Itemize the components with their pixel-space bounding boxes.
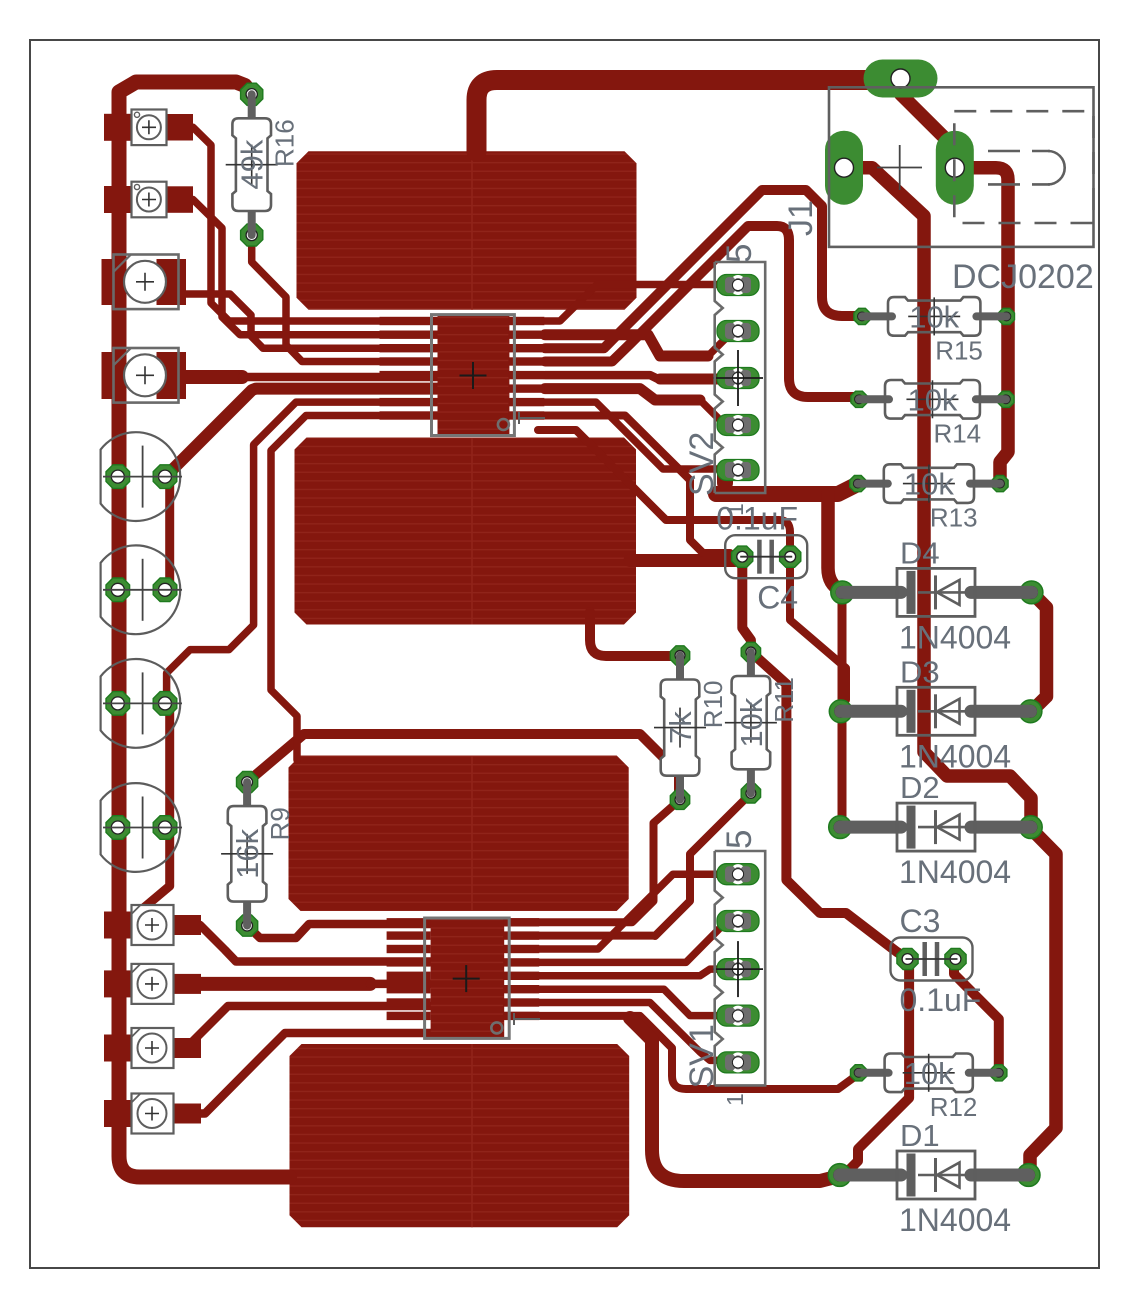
SMD pad LED1 outline <box>132 110 167 146</box>
diode D4 pads <box>831 581 1043 604</box>
IC2 pin8 silk tick <box>514 1013 540 1025</box>
connector SV2 pads 1-5 <box>713 275 763 481</box>
wire IC1 pin8-left to polygon-C (long vertical) <box>271 416 437 761</box>
diode D4 body <box>897 568 975 616</box>
electrolytic capacitor pad C3 outline <box>101 659 182 748</box>
wire IC2 pin3-right to SV1 pad1 <box>511 874 720 949</box>
svg-text:R14: R14 <box>933 418 981 448</box>
electrolytic capacitor C3 pads <box>106 692 177 716</box>
wire SMD pad LED5 to IC2 pin4-left <box>174 925 431 962</box>
connector SV1 pads 1-5 <box>713 864 763 1073</box>
op-amp IC1 (SOIC-16) outline <box>432 315 515 436</box>
diode D3 pads <box>829 700 1042 723</box>
svg-text:10k: 10k <box>909 299 959 334</box>
svg-text:1N4004: 1N4004 <box>899 619 1011 655</box>
capacitor C3 silk <box>891 938 973 981</box>
wire jack pad2 down through R15 R14 R13 D4 D3 to D2 right and D1 right (power trace B) <box>844 168 1056 1175</box>
resistor R9 pads <box>237 772 258 937</box>
wire IC1 pin7-left to electrolytic C3 right pad (long vertical) <box>167 402 437 704</box>
resistor R16 pads <box>241 83 263 246</box>
diode D1 pads <box>828 1164 1040 1187</box>
electrolytic capacitor pad C4 outline <box>101 783 182 872</box>
wire R13 trace branch down to D4 left pad <box>828 494 841 591</box>
svg-text:R10: R10 <box>698 681 728 729</box>
resistor R11 silk value=10k <box>725 652 799 793</box>
wire electrolytic C1 right to C2 right pad <box>165 477 174 590</box>
op-amp IC2 (SOIC-16) copper <box>387 918 540 1037</box>
electrolytic capacitor C2 pads <box>106 578 177 602</box>
resistor R13 body <box>884 464 974 503</box>
wire C3 left pad down through R12 to D1 left pad <box>845 959 909 1174</box>
resistor R16 body <box>232 118 271 211</box>
wire IC1 pin2 to SV2 pad2 <box>545 332 738 356</box>
capacitor C3 body <box>891 938 973 981</box>
SMD pad LED7 outline <box>132 1028 174 1068</box>
copper pour polygon GND upper-middle <box>295 438 637 625</box>
wire IC1 pin3 to R15 left pad (via top hook) <box>545 190 862 348</box>
wire SMD pad LED4 to IC1 pin5-left <box>186 370 437 384</box>
svg-text:1N4004: 1N4004 <box>899 738 1011 774</box>
resistor R14 silk value=10k <box>859 380 1006 448</box>
copper pour polygon GND top <box>297 151 637 309</box>
svg-text:D3: D3 <box>900 654 940 689</box>
diode D4 labels <box>899 535 1011 655</box>
electrolytic capacitor pad C1 outline <box>101 432 182 521</box>
resistor R15 body <box>888 297 980 336</box>
diode D2 body <box>897 803 975 851</box>
resistor R15 silk value=10k <box>862 297 1006 365</box>
wire IC2 pin6-right to SV1 pad4 <box>511 989 738 1015</box>
capacitor C4 pads <box>732 546 801 567</box>
diode D3 silk (1N4004) <box>841 687 1031 735</box>
wire R9 bottom pad to IC2 pin1-left <box>247 924 431 938</box>
copper pour polygon GND lower-middle <box>289 756 629 912</box>
wire D4 right pad to D3 right pad <box>1032 592 1047 711</box>
wire SV2 pin5 to R13 left pad <box>716 469 858 494</box>
wire IC1 pin4 to R14 left pad (via hook around SV2) <box>545 226 859 397</box>
wire C4 left pad down to R11 top pad <box>742 557 751 652</box>
svg-text:1N4004: 1N4004 <box>899 854 1011 890</box>
wire jack pad3 to R15/R14/R13 right pads (vertical x1008) <box>955 168 1008 484</box>
svg-text:D4: D4 <box>900 535 940 570</box>
diode D2 silk (1N4004) <box>840 803 1031 851</box>
DC jack J1 outline (DCJ0202) <box>829 87 1094 247</box>
diode D4 silk (1N4004) <box>842 568 1031 616</box>
svg-text:10k: 10k <box>904 1056 954 1091</box>
wire jack pad1 to jack pad3 (diagonal) <box>901 80 955 168</box>
svg-text:0.1uF: 0.1uF <box>900 982 982 1018</box>
wire R11 top pad to C3 left pad (down right side of SV1) <box>751 652 909 959</box>
DC jack J1 labels <box>782 200 1094 296</box>
op-amp IC1 (SOIC-16) copper <box>380 316 545 435</box>
diode D2 pads <box>829 816 1043 839</box>
resistor R15 pads <box>854 308 1015 324</box>
SMD pad LED8 outline <box>132 1094 174 1134</box>
resistor R12 body <box>885 1054 973 1093</box>
svg-text:SV1: SV1 <box>683 1024 721 1088</box>
svg-text:10k: 10k <box>907 382 957 417</box>
wire IC2 pin8-right to R12 left pad <box>511 1016 859 1089</box>
connector SV2 outline and labels <box>683 244 765 516</box>
wire polygon-B to C4 right pad and down to D3 left pad <box>538 430 846 700</box>
svg-text:1: 1 <box>722 1093 748 1106</box>
wire IC2 pin7-right to SV1 pad5 <box>511 1003 738 1061</box>
IC1 pin8 silk tick <box>519 412 545 424</box>
capacitor C4 silk <box>725 535 807 578</box>
SMD LED pad copper stubs (top group) <box>102 114 194 399</box>
resistor R10 body <box>661 680 700 776</box>
SMD pad LED3 outline <box>114 255 179 310</box>
op-amp IC2 (SOIC-16) outline <box>425 918 510 1038</box>
svg-text:5: 5 <box>720 830 759 849</box>
wire polygon-B to R10 top pad <box>590 612 680 656</box>
copper pour polygon GND bottom <box>290 1044 630 1227</box>
capacitor C4 labels <box>716 501 798 616</box>
resistor R14 pads <box>851 391 1014 407</box>
wire R16 bottom pad to IC1 pin4-left <box>252 237 437 362</box>
SMD pad LED5 outline <box>132 905 174 945</box>
wire polygon-A stub to jack sleeve pad (top power trace) <box>477 80 898 152</box>
svg-text:R9: R9 <box>265 807 295 840</box>
diode D1 silk (1N4004) <box>840 1151 1029 1199</box>
svg-text:DCJ0202: DCJ0202 <box>952 258 1094 296</box>
wire D4 left pad to D3 left pad to D2 left pad <box>838 593 847 827</box>
wire SMD pad LED8 to IC2 pin8-left <box>174 1033 431 1114</box>
svg-text:C4: C4 <box>757 580 798 616</box>
SMD pad LED2 outline <box>132 182 167 218</box>
wire SMD pad LED2 to IC1 pin2 <box>193 200 437 335</box>
wire IC1 pin8 to C4 left pad (diagonal below SV2) <box>545 416 730 554</box>
wire SMD pad LED7 to IC2 pin7-left <box>174 1006 431 1048</box>
wire IC1 pin6 to SV2 pad4 <box>545 389 738 424</box>
resistor R9 silk value=16k <box>221 782 295 926</box>
resistor R14 body <box>885 380 980 419</box>
resistor R11 body <box>732 676 771 769</box>
wire IC2 pin2-right to R11 bottom pad <box>511 793 751 936</box>
resistor R12 silk value=10k <box>859 1054 999 1122</box>
wire polygon-D area to D1 left pad <box>630 1018 840 1181</box>
svg-text:R11: R11 <box>769 677 799 723</box>
SMD pad LED4 outline <box>114 348 179 403</box>
capacitor C4 body <box>725 535 807 578</box>
wire IC2 pin4-right to SV1 pad2 <box>511 921 738 962</box>
svg-text:1N4004: 1N4004 <box>899 1202 1011 1238</box>
svg-text:5: 5 <box>720 244 759 263</box>
svg-text:16k: 16k <box>230 828 265 878</box>
capacitor C3 pads <box>897 948 966 969</box>
electrolytic capacitor C4 pads <box>106 816 177 840</box>
wire C3 right pad to R12 right pad <box>954 959 999 1073</box>
connector SV1 outline and labels <box>683 830 765 1106</box>
resistor R13 pads <box>850 476 1008 492</box>
resistor R12 pads <box>851 1065 1007 1081</box>
wire polygon-B to C4 left pad <box>630 554 735 567</box>
resistor R10 pads <box>670 646 689 810</box>
wire electrolytic C3 right to C4 right pad <box>165 703 174 827</box>
diode D1 labels <box>899 1118 1011 1238</box>
svg-text:D2: D2 <box>900 770 940 805</box>
svg-text:R16: R16 <box>270 119 300 167</box>
wire R9 top pad to R10 bottom pad (long horizontal) <box>247 734 679 800</box>
wire SMD pad LED3 to IC1 pin3-left <box>186 294 437 348</box>
svg-text:R13: R13 <box>930 503 978 533</box>
svg-text:10k: 10k <box>904 467 954 502</box>
svg-text:J1: J1 <box>782 200 820 236</box>
wire IC1 pin1 to SV2 pad1 <box>545 285 717 322</box>
svg-text:7k: 7k <box>663 711 698 744</box>
svg-text:R15: R15 <box>935 335 983 365</box>
SMD LED pad copper stubs (bottom group) <box>104 912 201 1128</box>
wire IC2 pin5-right to SV1 pad3 <box>511 969 738 976</box>
svg-text:SV2: SV2 <box>683 432 721 496</box>
resistor R11 pads <box>741 642 760 803</box>
wire SMD pad LED1 to IC1 pin1 <box>193 127 437 321</box>
wire electrolytic C1 right pad to IC1 pin6-left <box>165 389 437 477</box>
resistor R10 silk value=7k <box>654 656 728 800</box>
diode D3 body <box>897 687 975 735</box>
wire IC1 pin5 to SV2 pad3 <box>545 375 738 379</box>
electrolytic capacitor pad C2 outline <box>101 545 182 634</box>
diode D3 labels <box>899 654 1011 774</box>
diode D1 body <box>897 1151 975 1199</box>
resistor R16 silk value=49k <box>226 94 300 235</box>
DC jack J1 pads <box>825 60 974 205</box>
wire SMD pad LED6 to IC2 pin6-left <box>174 977 431 991</box>
svg-text:10k: 10k <box>734 697 769 747</box>
svg-text:C3: C3 <box>900 903 941 939</box>
SMD pad LED6 outline <box>132 964 174 1004</box>
svg-text:D1: D1 <box>900 1118 940 1153</box>
electrolytic capacitor C1 pads <box>106 465 177 489</box>
resistor R9 body <box>228 806 267 902</box>
wire IC2 pin1-right to R10 bottom pad <box>511 800 680 923</box>
diode D2 labels <box>899 770 1011 890</box>
wire electrolytic C4 right pad to left rail <box>128 828 170 922</box>
wire IC1 pin7 to SV2 pad5 <box>545 402 738 469</box>
capacitor C3 labels <box>900 903 982 1018</box>
wire main left vertical rail (net N$1) <box>119 82 290 1177</box>
svg-text:1: 1 <box>722 503 748 516</box>
resistor R13 silk value=10k <box>858 464 1000 532</box>
svg-text:49k: 49k <box>235 139 270 189</box>
